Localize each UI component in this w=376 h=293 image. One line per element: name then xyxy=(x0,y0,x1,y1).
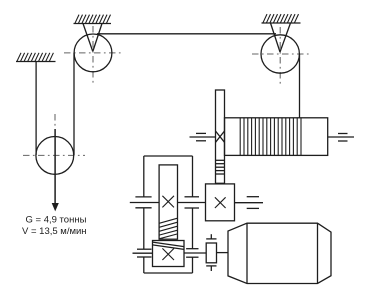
brake shoe lower xyxy=(206,266,216,271)
wire: rope from dead-end anchor down to traveling block xyxy=(35,62,37,156)
bearing caps: reducer upper-right xyxy=(185,197,200,208)
support legs of upper-right pulley xyxy=(271,23,291,52)
shaft: reducer output to pinion block xyxy=(178,202,206,204)
bearing: drum shaft left xyxy=(196,133,206,140)
bearing caps: reducer lower-right xyxy=(186,249,198,258)
bearing caps: reducer lower-left xyxy=(137,249,152,257)
bearing: right of block xyxy=(247,197,259,209)
centerlines of upper-left pulley xyxy=(64,26,122,85)
wire: rope between upper pulleys xyxy=(97,33,276,35)
centerlines of traveling pulley xyxy=(23,114,85,155)
centerlines of upper-right pulley xyxy=(252,27,310,87)
svg-text:G = 4,9 тонны: G = 4,9 тонны xyxy=(26,215,87,226)
wire: rope from upper-right pulley down to drum xyxy=(299,54,301,118)
reducer output shaft (left stub) xyxy=(133,252,153,254)
bearing caps: reducer upper-left xyxy=(135,197,151,208)
fixed ceiling anchor (rope dead end, left) xyxy=(16,53,56,62)
bearing: drum shaft right xyxy=(338,134,348,142)
ceiling mount for upper-right pulley xyxy=(262,14,301,23)
pulley: traveling block (hook block) xyxy=(36,137,74,175)
ceiling mount for upper-left pulley xyxy=(74,15,112,24)
drum (rope drum) xyxy=(225,118,328,156)
reducer input shaft stub (left) xyxy=(130,202,159,204)
drum shaft left end xyxy=(190,136,216,138)
wire: rope from traveling block up to upper-left pulley xyxy=(73,53,75,155)
rope coils on drum xyxy=(240,118,301,156)
shaft: bearing block to right support xyxy=(235,202,264,204)
reducer wheel (output stage, wide) xyxy=(153,241,185,267)
reducer pinion (input stage, tall) with mesh hatch xyxy=(159,165,177,239)
load arrow (weight G) xyxy=(52,129,59,211)
reducer housing outline xyxy=(144,156,193,273)
drum shaft right end xyxy=(328,136,354,138)
brake shoe upper xyxy=(206,234,216,239)
shaft: reducer to brake coupling xyxy=(184,252,206,254)
svg-text:V = 13,5 м/мин: V = 13,5 м/мин xyxy=(22,226,87,237)
open-gear wheel on drum shaft (with pinion below, mesh stripes) xyxy=(216,90,225,183)
support legs of upper-left pulley xyxy=(83,24,102,52)
motor shaft xyxy=(217,252,229,254)
pulley: upper-left fixed block xyxy=(74,34,112,72)
brake pulley (coupling) xyxy=(206,243,216,263)
pulley: upper-right fixed block xyxy=(261,35,299,73)
pinion shaft bearing block (box with X) xyxy=(206,184,235,221)
electric motor xyxy=(228,223,331,283)
